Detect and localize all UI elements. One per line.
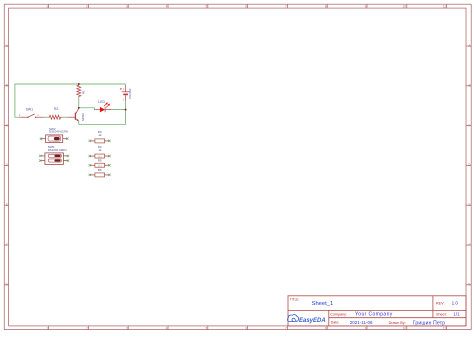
svg-text:E: E	[468, 203, 470, 207]
svg-text:S8050: S8050	[81, 113, 85, 121]
svg-text:R6: R6	[98, 168, 102, 172]
svg-text:1: 1	[46, 4, 48, 8]
svg-text:TITLE:: TITLE:	[290, 297, 300, 301]
svg-text:B: B	[468, 84, 470, 88]
svg-text:2: 2	[86, 4, 88, 8]
svg-text:Company:: Company:	[330, 312, 347, 316]
svg-text:7: 7	[285, 4, 287, 8]
svg-text:R5: R5	[98, 158, 102, 162]
svg-text:E: E	[6, 203, 8, 207]
svg-text:6: 6	[245, 326, 247, 330]
svg-text:6: 6	[245, 4, 247, 8]
svg-text:Sheet:: Sheet:	[436, 313, 447, 317]
svg-text:8: 8	[325, 4, 327, 8]
svg-text:REV:: REV:	[436, 301, 444, 305]
svg-text:Date:: Date:	[331, 321, 340, 325]
svg-text:1: 1	[46, 326, 48, 330]
svg-text:11: 11	[443, 326, 447, 330]
svg-text:4: 4	[166, 326, 168, 330]
svg-text:7: 7	[285, 326, 287, 330]
svg-text:10: 10	[403, 326, 407, 330]
svg-text:Гришин Петр: Гришин Петр	[413, 320, 445, 326]
svg-text:10: 10	[403, 4, 407, 8]
svg-text:1k: 1k	[98, 148, 102, 152]
svg-text:5: 5	[205, 326, 207, 330]
svg-text:1.0: 1.0	[452, 300, 459, 305]
svg-text:5: 5	[205, 4, 207, 8]
svg-text:9: 9	[365, 326, 367, 330]
svg-text:DS1040-02RN: DS1040-02RN	[48, 148, 67, 152]
svg-text:4: 4	[166, 4, 168, 8]
svg-text:B: B	[6, 84, 8, 88]
svg-text:R2: R2	[54, 107, 58, 111]
svg-text:1k1: 1k1	[97, 154, 102, 158]
svg-text:Drawn By:: Drawn By:	[389, 321, 406, 325]
svg-text:3: 3	[126, 4, 128, 8]
svg-text:F: F	[469, 243, 471, 247]
svg-text:Your Company: Your Company	[355, 311, 393, 317]
svg-text:2021-11-06: 2021-11-06	[350, 320, 373, 325]
svg-text:3: 3	[126, 326, 128, 330]
svg-text:SW1: SW1	[26, 107, 33, 111]
svg-text:1k: 1k	[98, 133, 102, 137]
svg-text:DS1040-01RN: DS1040-01RN	[49, 130, 68, 134]
svg-text:LED: LED	[98, 100, 105, 104]
svg-text:F: F	[6, 243, 8, 247]
svg-text:R1: R1	[82, 90, 86, 94]
svg-text:9: 9	[365, 4, 367, 8]
svg-text:2: 2	[86, 326, 88, 330]
svg-text:1k1: 1k1	[97, 164, 102, 168]
svg-text:EasyEDA: EasyEDA	[299, 318, 326, 324]
svg-text:8: 8	[325, 326, 327, 330]
svg-text:CR2032: CR2032	[128, 88, 132, 99]
svg-text:Sheet_1: Sheet_1	[312, 301, 334, 307]
svg-text:11: 11	[443, 4, 447, 8]
svg-text:1/1: 1/1	[453, 312, 460, 317]
